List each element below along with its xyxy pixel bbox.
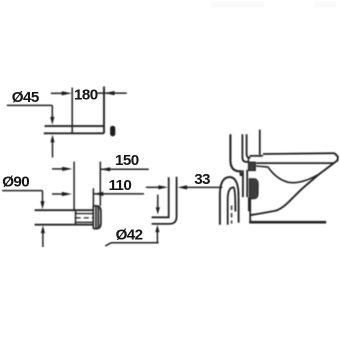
- dimension 150 left extension line: [73, 162, 75, 210]
- dimension 180 left outside arrow: [51, 92, 62, 94]
- svg-text:180: 180: [74, 87, 98, 104]
- flange seal ridge lines: [96, 206, 98, 228]
- flush elbow P3 inner wall: [152, 177, 169, 217]
- dimension 150 left outside arrow: [52, 168, 63, 170]
- toilet base back edge: [249, 199, 251, 222]
- faint scan smudge top right: [314, 1, 336, 8]
- svg-text:Ø90: Ø90: [2, 173, 29, 190]
- outlet gasket (hatched): [249, 179, 258, 199]
- outlet connector P2 bottom edge: [35, 224, 94, 226]
- dimension 180 left extension line: [71, 88, 73, 134]
- dimension 110 left outside arrow: [52, 193, 63, 195]
- dimension Ø90 up arrow: [41, 226, 45, 234]
- dimension Ø42 up arrow: [155, 225, 159, 232]
- svg-text:Ø45: Ø45: [12, 89, 40, 106]
- flush elbow P3 outer wall: [152, 177, 177, 224]
- toilet outer profile: right tip, diagonal and underside: [251, 153, 338, 215]
- dimension 110 dimension line and left-pointing arrow: [94, 193, 144, 195]
- flange seal outline: [93, 206, 101, 229]
- dimension Ø42 leader underline: [105, 243, 158, 246]
- outlet connector P2 top edge: [35, 209, 94, 211]
- outlet connector P2 inner bore line upper: [76, 213, 94, 215]
- outlet horn left wall: [242, 170, 244, 197]
- dimension 180 right outside arrow: [97, 92, 127, 94]
- ceramic back top edge: [259, 130, 261, 155]
- flush pipe P1 top edge: [45, 125, 105, 127]
- dimension 110 right extension line (flange left): [92, 188, 94, 206]
- flush drop pipe outer wall: [242, 134, 248, 162]
- dimension Ø45 up arrow: [50, 135, 54, 143]
- toilet bowl interior curve: [256, 166, 320, 183]
- dimension Ø90 down arrow: [42, 191, 44, 202]
- outlet horn right wall: [246, 170, 248, 197]
- pipe P1 end cap (dark plug): [110, 126, 115, 136]
- wall line with elbow and step: [230, 134, 242, 175]
- dimension Ø45 down arrow: [51, 105, 53, 117]
- spud gasket (hatched): [248, 162, 255, 171]
- dimension Ø42 down arrow: [157, 195, 159, 208]
- spud joint vertical: [247, 157, 249, 162]
- faint scan smudge top left: [211, 1, 264, 8]
- flush pipe P1 bottom edge: [44, 132, 104, 134]
- soil pipe hub right wall: [248, 197, 250, 211]
- svg-text:110: 110: [109, 177, 132, 194]
- flange seal left edge: [92, 206, 94, 229]
- toilet rim lower line: [256, 162, 333, 164]
- dimension Ø90 leader underline: [2, 190, 42, 192]
- dimension 180 right extension line (pipe end): [103, 87, 105, 134]
- outlet connector P2 socket vertical: [75, 210, 77, 225]
- svg-text:150: 150: [115, 152, 139, 169]
- dimension 150 right extension line: [99, 162, 101, 206]
- svg-text:33: 33: [194, 171, 210, 188]
- flush drop pipe inner wall: [247, 134, 251, 158]
- toilet base bottom line: [249, 221, 326, 224]
- dimension 33 right arrow: [187, 186, 222, 188]
- soil pipe centerline dashes: [231, 206, 233, 224]
- soil pipe hub left wall: [238, 197, 240, 222]
- outlet connector P2 inner bore line lower: [76, 221, 94, 223]
- svg-text:Ø42: Ø42: [116, 226, 143, 243]
- outlet connector P2 centerline dashed: [76, 217, 94, 219]
- soil elbow outer arch: [220, 177, 239, 225]
- soil elbow inner arch: [228, 187, 236, 225]
- dimension 33 left arrow: [146, 186, 159, 188]
- dimension 150 dimension line and left-pointing arrow: [101, 168, 149, 170]
- toilet rim upper line: [250, 153, 335, 156]
- dimension Ø45 leader underline: [7, 104, 53, 106]
